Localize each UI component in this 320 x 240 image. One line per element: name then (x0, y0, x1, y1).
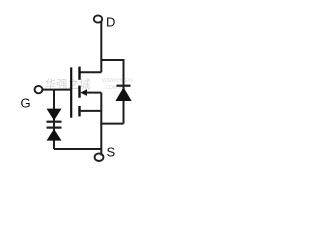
mosfet Q1 body arrow (80, 89, 87, 96)
wire body-diode branch vertical (123, 59, 125, 124)
mosfet Q1 channel drain segment (78, 67, 80, 80)
wire source vertical (100, 93, 102, 156)
wire gate lead (42, 89, 71, 91)
wire drain lead into channel (80, 71, 102, 73)
terminal D (94, 15, 102, 22)
wire drain vertical (100, 21, 102, 72)
mosfet Q1 gate bar (70, 67, 72, 117)
diode D1 anode triangle (115, 87, 131, 101)
svg-text:D: D (106, 15, 115, 30)
svg-text:WWW.HQEW: WWW.HQEW (102, 78, 133, 84)
watermark web text (102, 78, 133, 91)
wire zener bottom to source (54, 148, 101, 150)
terminal S (95, 153, 104, 161)
wire body-diode bottom to source (100, 123, 123, 125)
terminal G (35, 86, 43, 93)
zener Z2 cathode bar (47, 126, 62, 128)
diode D1 cathode bar (117, 85, 131, 87)
wire body lead (86, 92, 102, 94)
wire drain to body-diode top (101, 59, 123, 61)
zener Z1 anode triangle (47, 109, 62, 121)
zener Z2 anode triangle (47, 129, 62, 141)
svg-text:G: G (21, 95, 31, 110)
wire source lead (81, 110, 102, 112)
wire zener branch vertical (53, 90, 55, 149)
mosfet Q1 channel body segment (78, 86, 80, 98)
zener Z1 cathode bar (47, 121, 62, 123)
svg-text:S: S (107, 144, 116, 159)
mosfet Q1 channel source segment (78, 106, 80, 117)
